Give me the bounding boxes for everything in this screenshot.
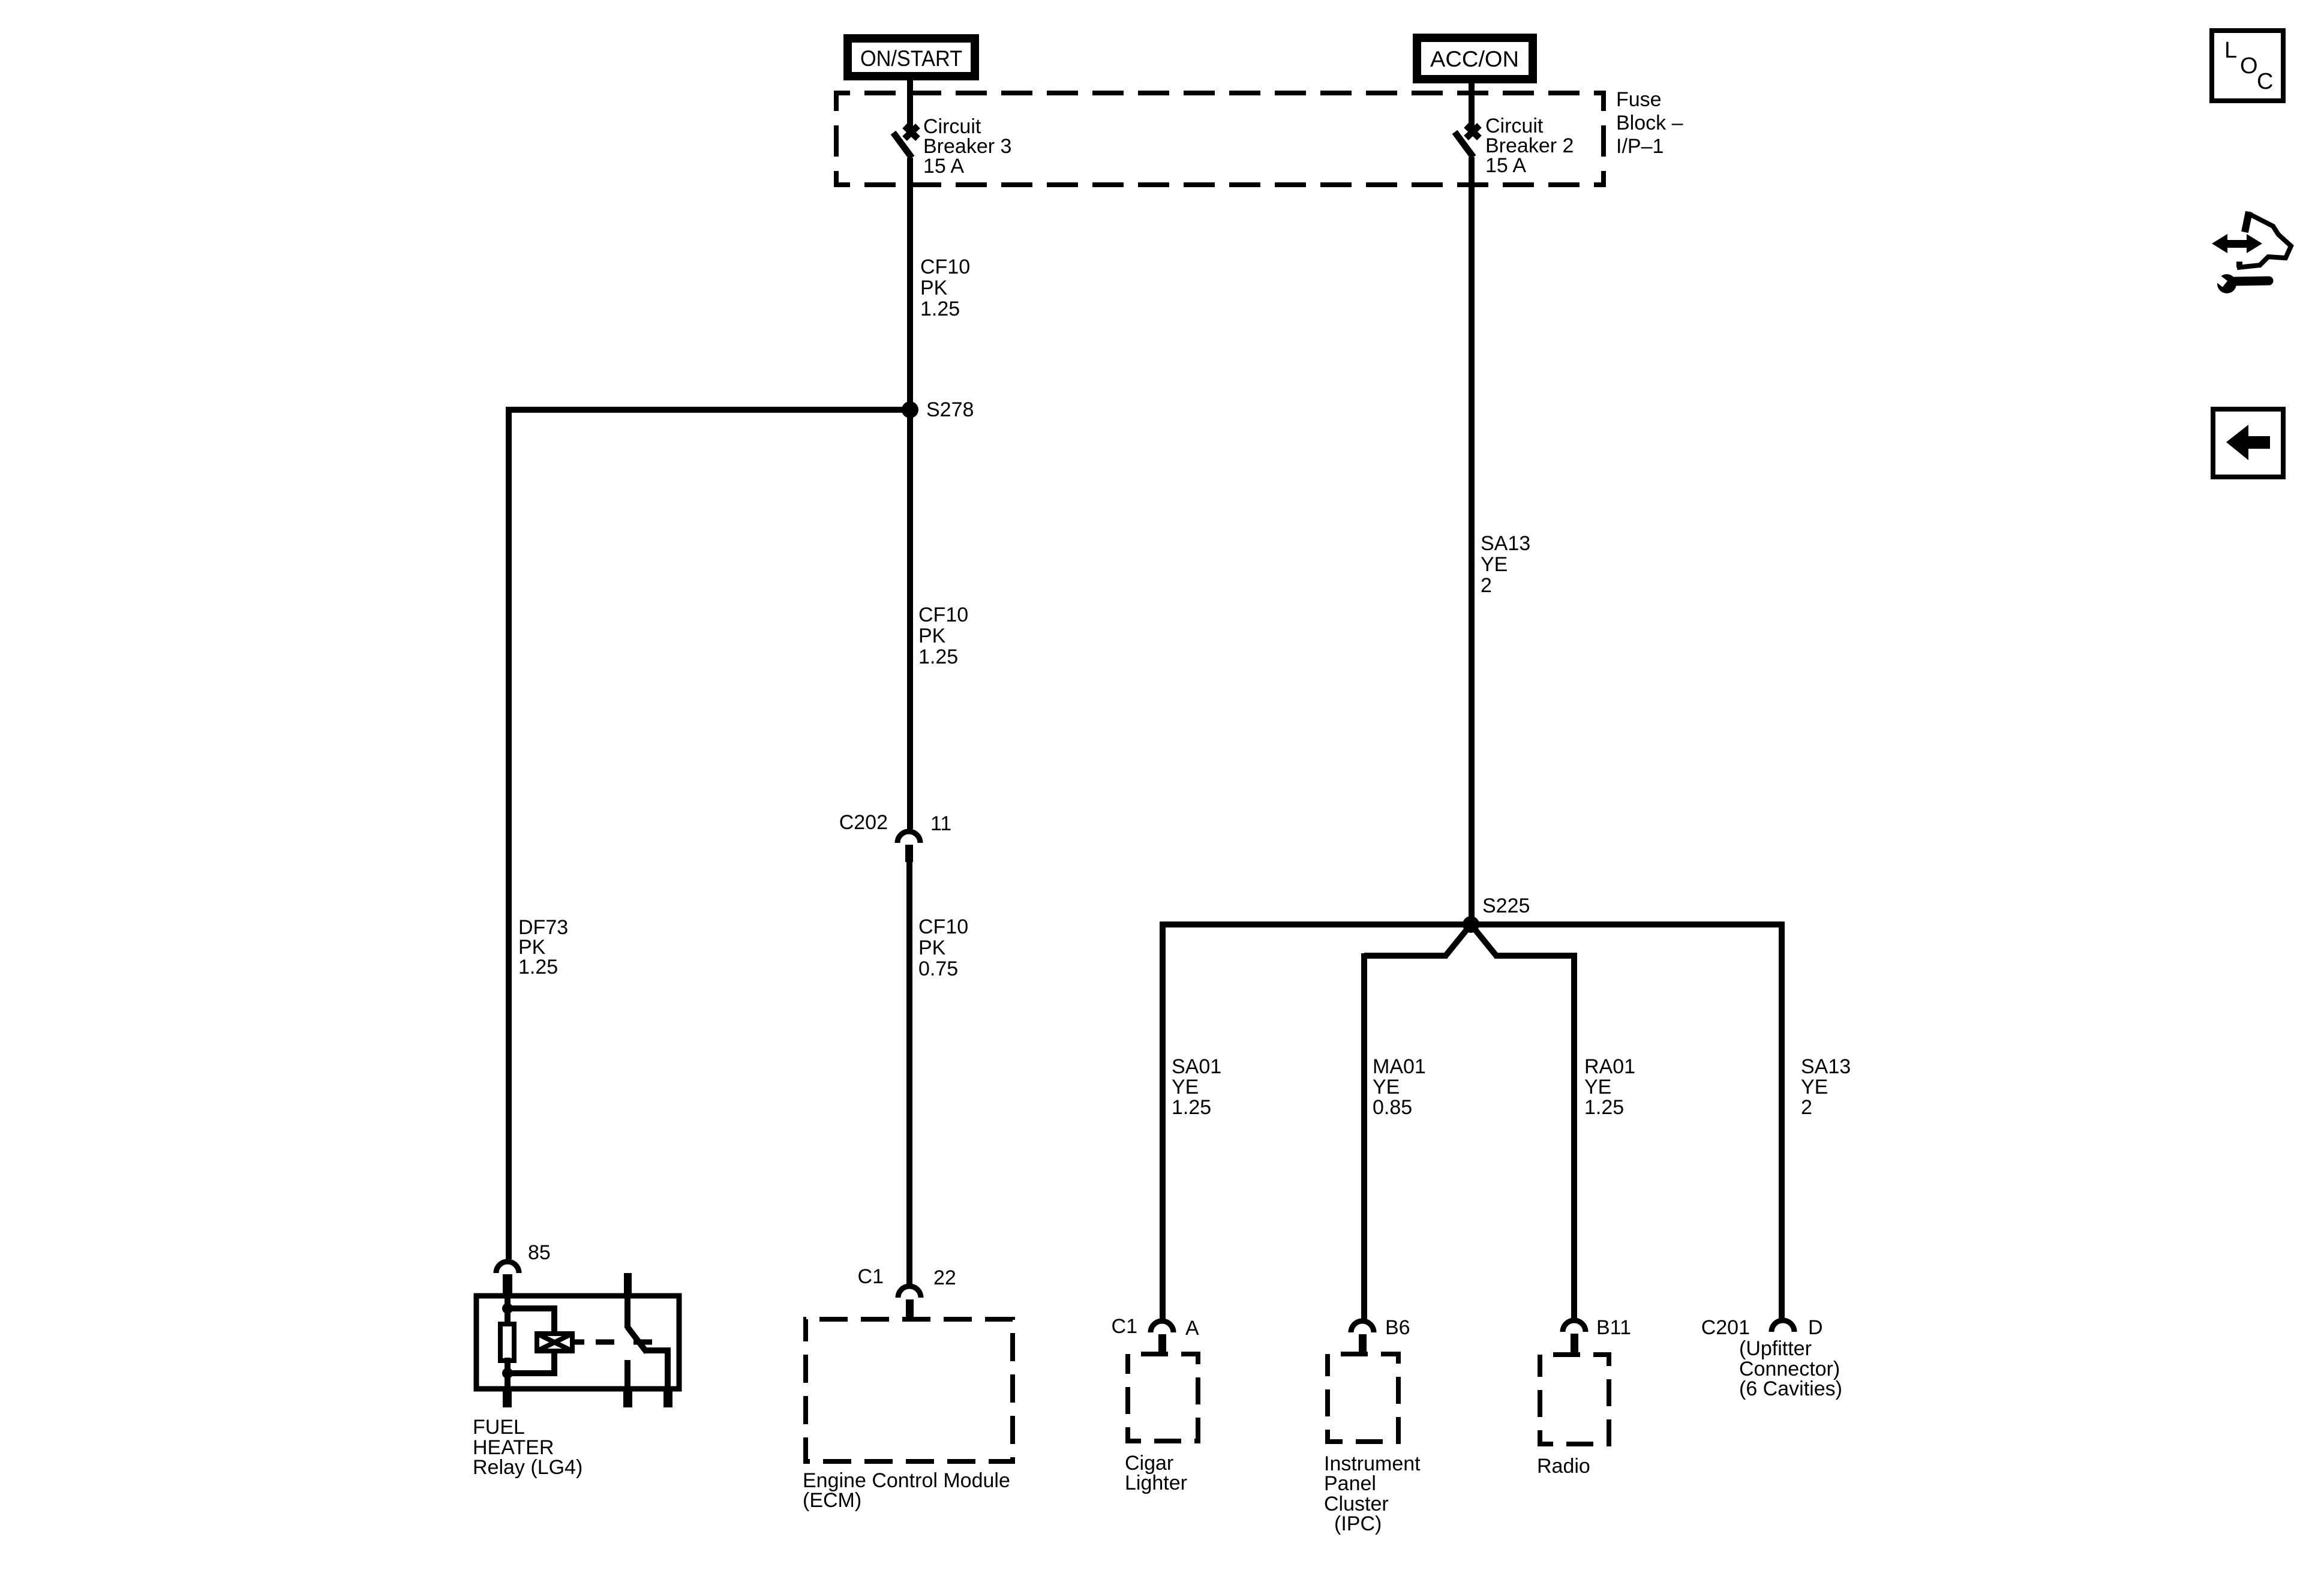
svg-text:CF10: CF10	[920, 256, 970, 278]
svg-text:0.85: 0.85	[1373, 1096, 1412, 1119]
svg-text:C1: C1	[858, 1265, 884, 1288]
relay NC pin stub below box	[663, 1391, 672, 1407]
svg-text:0.75: 0.75	[918, 957, 958, 980]
node ACC/ON (accessory feed box)	[1417, 38, 1533, 79]
splice S278 junction dot	[902, 401, 918, 418]
label FUEL HEATER Relay (LG4)	[473, 1416, 582, 1479]
back arrow box	[2213, 409, 2283, 477]
LOC legend box	[2212, 31, 2283, 101]
svg-text:1.25: 1.25	[920, 298, 960, 320]
svg-text:YE: YE	[1373, 1076, 1400, 1098]
label wire CF10 PK 1.25 (upper)	[920, 256, 970, 320]
svg-text:YE: YE	[1481, 553, 1508, 576]
svg-text:S225: S225	[1482, 894, 1530, 917]
label pin B11	[1596, 1316, 1631, 1339]
connector pin 85 half circle at relay	[496, 1262, 519, 1295]
label pin B6	[1385, 1316, 1410, 1339]
label S278	[926, 398, 974, 421]
relay box FUEL HEATER Relay (LG4)	[476, 1296, 679, 1389]
label C1 (cigar)	[1112, 1315, 1137, 1338]
IPC dashed box	[1328, 1354, 1398, 1442]
svg-text:Lighter: Lighter	[1125, 1472, 1187, 1494]
svg-text:C202: C202	[839, 811, 888, 834]
svg-text:85: 85	[528, 1241, 551, 1264]
svg-text:B6: B6	[1385, 1316, 1410, 1339]
svg-text:SA01: SA01	[1172, 1055, 1221, 1078]
label C202	[839, 811, 888, 834]
node ON/START (ignition feed box)	[848, 38, 975, 76]
svg-text:YE: YE	[1801, 1076, 1828, 1098]
wire relay coil feed (inside, left vertical upper)	[505, 1293, 511, 1323]
label pin A	[1185, 1317, 1199, 1340]
wire resistor to bottom junction	[505, 1358, 511, 1391]
svg-text:Panel: Panel	[1324, 1472, 1376, 1495]
label Circuit Breaker 2 15 A	[1485, 115, 1574, 177]
svg-text:SA13: SA13	[1481, 532, 1530, 555]
label wire CF10 PK 1.25 (middle)	[918, 604, 968, 668]
connector pin B11 (Radio)	[1563, 1320, 1586, 1352]
svg-text:1.25: 1.25	[1584, 1096, 1624, 1119]
svg-text:O: O	[2240, 53, 2258, 79]
wire branch to IPC (MA01)	[1361, 956, 1367, 1319]
label wire CF10 PK 0.75	[918, 915, 968, 980]
circuit breaker CB2 contact X	[1466, 125, 1479, 138]
svg-text:1.25: 1.25	[518, 956, 558, 978]
label C1	[858, 1265, 884, 1288]
svg-text:CF10: CF10	[918, 604, 968, 626]
svg-text:ACC/ON: ACC/ON	[1430, 47, 1519, 71]
label Circuit Breaker 3 15 A	[923, 115, 1011, 178]
label Radio	[1537, 1455, 1590, 1478]
label C201	[1701, 1316, 1750, 1339]
svg-text:2: 2	[1801, 1096, 1812, 1119]
label pin 85	[528, 1241, 551, 1264]
wire branch to Radio (RA01)	[1571, 956, 1577, 1319]
svg-text:I/P–1: I/P–1	[1616, 135, 1664, 158]
wire CB2 to S225 (SA13 YE)	[1469, 157, 1475, 924]
svg-text:S278: S278	[926, 398, 974, 421]
svg-text:SA13: SA13	[1801, 1055, 1851, 1078]
resistor inside relay	[500, 1324, 514, 1361]
label wire MA01 YE 0.85	[1373, 1055, 1426, 1119]
svg-text:A: A	[1185, 1317, 1199, 1340]
relay open contact (middle)	[624, 1360, 630, 1391]
wire S225 Y-split diagonals	[1445, 924, 1497, 956]
label pin 11	[930, 812, 951, 835]
svg-text:Radio: Radio	[1537, 1455, 1590, 1478]
relay pin 86 stub below box	[503, 1391, 512, 1407]
svg-text:RA01: RA01	[1584, 1055, 1635, 1078]
svg-text:(IPC): (IPC)	[1334, 1512, 1382, 1535]
circuit breaker CB2 arm	[1455, 132, 1473, 157]
label S225	[1482, 894, 1530, 917]
relay switch common stub (top)	[624, 1273, 632, 1328]
diagnostic icon (arrow and wrench)	[2210, 212, 2291, 293]
wire branch to Upfitter (SA13)	[1779, 921, 1785, 1319]
svg-text:1.25: 1.25	[918, 646, 958, 668]
svg-text:2: 2	[1481, 574, 1492, 597]
relay middle pin stub below box	[623, 1391, 632, 1407]
svg-text:11: 11	[930, 812, 951, 835]
label wire SA01 YE 1.25	[1172, 1055, 1221, 1119]
circuit breaker CB3 contact X	[905, 126, 918, 139]
wire branch to Cigar Lighter (SA01)	[1160, 921, 1166, 1319]
svg-text:22: 22	[933, 1266, 956, 1289]
wire C202 to ECM connector C1	[906, 862, 912, 1285]
Radio dashed box	[1540, 1355, 1609, 1444]
svg-text:B11: B11	[1596, 1316, 1631, 1339]
svg-text:(ECM): (ECM)	[803, 1489, 861, 1512]
label wire DF73 PK 1.25	[518, 916, 568, 978]
connector C202 pin 11 (in-line)	[897, 831, 920, 862]
wire ACC/ON to Circuit Breaker 2	[1469, 79, 1475, 136]
label wire RA01 YE 1.25	[1584, 1055, 1635, 1119]
junction dot relay bottom	[502, 1368, 513, 1379]
connector C1 pin 22 (ECM)	[898, 1286, 921, 1317]
ECM dashed box	[806, 1319, 1013, 1461]
wire S278 horizontal to left branch	[509, 407, 910, 413]
wire inner split horizontals	[1364, 953, 1574, 959]
relay switch arm	[627, 1327, 647, 1352]
svg-text:ON/START: ON/START	[860, 46, 962, 71]
svg-text:Relay (LG4): Relay (LG4)	[473, 1456, 582, 1479]
label wire SA13 YE 2 (lower)	[1801, 1055, 1851, 1119]
svg-text:C201: C201	[1701, 1316, 1750, 1339]
svg-text:PK: PK	[918, 625, 946, 647]
label Instrument Panel Cluster (IPC)	[1324, 1452, 1421, 1535]
wire S225 horizontal bus	[1163, 921, 1782, 927]
label wire SA13 YE 2 (upper)	[1481, 532, 1530, 597]
svg-text:YE: YE	[1584, 1076, 1611, 1098]
svg-text:CF10: CF10	[918, 915, 968, 938]
wire CB3 to S278 to C202 (CF10 PK)	[907, 158, 913, 829]
svg-text:MA01: MA01	[1373, 1055, 1426, 1078]
wire coil branch (parallel loop)	[508, 1308, 554, 1373]
svg-text:L: L	[2224, 38, 2237, 63]
svg-text:PK: PK	[918, 936, 946, 959]
svg-text:Block –: Block –	[1616, 112, 1683, 134]
svg-text:C1: C1	[1112, 1315, 1137, 1338]
dashed mechanical linkage coil to switch	[575, 1340, 652, 1345]
junction dot relay top	[502, 1303, 513, 1314]
svg-text:(6 Cavities): (6 Cavities)	[1739, 1377, 1842, 1400]
svg-text:D: D	[1808, 1316, 1823, 1339]
connector C1 pin A (Cigar Lighter)	[1151, 1321, 1173, 1353]
connector C201 pin D (Upfitter)	[1771, 1320, 1794, 1332]
label Cigar Lighter	[1125, 1452, 1187, 1494]
svg-text:Fuse: Fuse	[1616, 88, 1662, 111]
svg-text:(Upfitter: (Upfitter	[1739, 1337, 1812, 1360]
label pin D	[1808, 1316, 1823, 1339]
circuit breaker CB3 arm	[893, 133, 912, 158]
wire left branch down to relay pin 85 (DF73 PK)	[506, 407, 512, 1259]
svg-text:15 A: 15 A	[1485, 154, 1526, 177]
fuse block I/P-1 dashed enclosure	[834, 91, 1606, 187]
svg-text:1.25: 1.25	[1172, 1096, 1211, 1119]
label Engine Control Module (ECM)	[803, 1469, 1010, 1512]
wire switch arm to NC contact	[645, 1350, 668, 1391]
label (Upfitter Connector) (6 Cavities)	[1739, 1337, 1842, 1400]
svg-text:C: C	[2257, 69, 2273, 94]
label Fuse Block - I/P-1	[1616, 88, 1683, 158]
svg-text:15 A: 15 A	[923, 155, 964, 178]
splice S225 junction dot	[1463, 916, 1479, 933]
svg-text:YE: YE	[1172, 1076, 1199, 1098]
svg-text:PK: PK	[920, 277, 948, 299]
connector pin B6 (IPC)	[1351, 1321, 1374, 1353]
relay coil (box with X)	[537, 1334, 572, 1351]
label pin 22	[933, 1266, 956, 1289]
wire ON/START to Circuit Breaker 3	[907, 76, 913, 137]
svg-text:FUEL: FUEL	[473, 1416, 525, 1439]
Cigar Lighter dashed box	[1128, 1354, 1198, 1441]
